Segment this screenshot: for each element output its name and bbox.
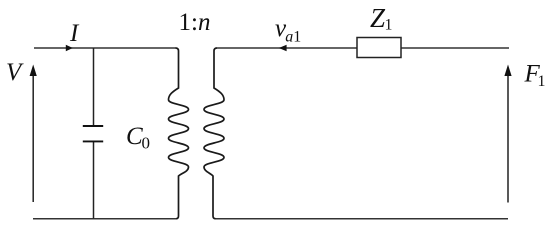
svg-text:I: I: [69, 20, 80, 47]
svg-text:1: 1: [538, 73, 546, 90]
svg-text:V: V: [6, 59, 24, 86]
svg-text:C: C: [126, 123, 143, 150]
svg-text:1:n: 1:n: [179, 9, 211, 36]
svg-text:a1: a1: [285, 29, 301, 46]
svg-text:0: 0: [142, 134, 151, 153]
svg-text:1: 1: [385, 16, 393, 33]
